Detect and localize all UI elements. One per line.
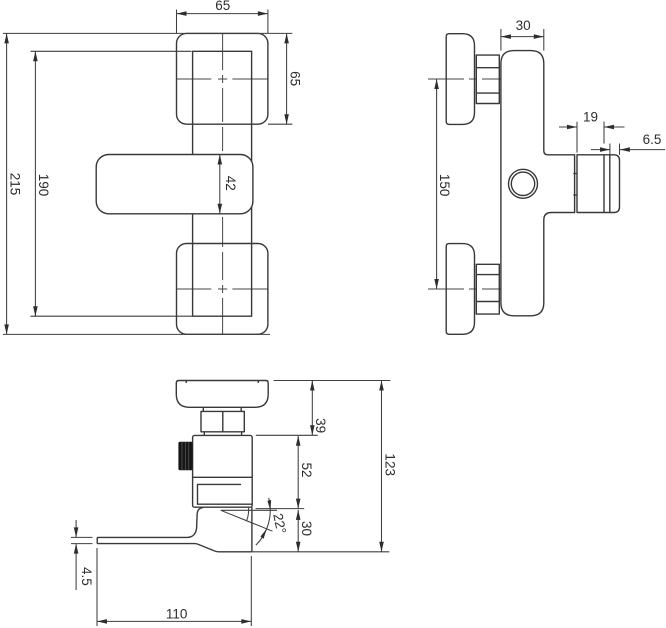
angle wedge horizontal leg [221, 509, 277, 511]
extension line bottom (123/30) [252, 551, 389, 553]
escutcheon ticks [185, 381, 187, 384]
top mounting nut [476, 55, 499, 103]
dimension 30 [501, 36, 544, 38]
escutcheon bottom view [176, 381, 268, 408]
connector ticks [573, 173, 576, 175]
dimension 6.5 [591, 149, 610, 151]
dimension 65 width [177, 13, 268, 15]
dimension 39 [311, 381, 313, 436]
dimension 30 lower [297, 510, 299, 552]
extension line 190 top [31, 50, 192, 52]
svg-text:190: 190 [36, 174, 51, 197]
extension line 190 bottom [31, 315, 193, 317]
extension line top (123/39) [274, 380, 391, 382]
neck upper [202, 407, 204, 411]
svg-text:150: 150 [437, 174, 452, 197]
svg-text:110: 110 [166, 607, 188, 622]
screw hole circle outer [509, 169, 538, 198]
centerline horizontal bottom square [177, 288, 268, 290]
neck lower [203, 432, 205, 436]
dimension 42 handle [219, 155, 221, 214]
centerline bottom escutcheon [428, 288, 508, 290]
angle inner arc [246, 508, 248, 521]
dimension 123 [381, 381, 383, 552]
svg-text:52: 52 [299, 462, 314, 477]
bottom wall bracket square [177, 244, 268, 335]
extension line 65h bottom [268, 123, 292, 125]
svg-text:65: 65 [215, 0, 230, 13]
extension lines 30 [500, 29, 502, 51]
extension lines 65 width [176, 10, 178, 34]
dimension 52 [297, 436, 299, 509]
angle arrowheads [267, 500, 271, 510]
svg-text:4.5: 4.5 [79, 567, 94, 586]
dimension 150 [436, 79, 438, 289]
extension lines 110 [96, 548, 98, 626]
dimension 190 [34, 51, 36, 316]
body side view with outlet boss [501, 51, 575, 316]
connector groove lines [603, 155, 605, 213]
svg-text:42: 42 [223, 176, 238, 191]
svg-text:19: 19 [583, 109, 598, 124]
extension lines 19 [576, 122, 578, 153]
dimension 215 [6, 33, 8, 334]
extension line 39 bottom / 52 top [256, 434, 318, 436]
angle outer arc [256, 498, 270, 545]
svg-text:123: 123 [382, 453, 397, 476]
dimension 110 [97, 620, 251, 622]
centerline top escutcheon [428, 78, 508, 80]
handle front view [96, 155, 253, 214]
bottom mounting nut [476, 264, 499, 314]
svg-text:30: 30 [299, 521, 314, 536]
centerline horizontal top square [177, 78, 268, 80]
svg-text:65: 65 [288, 71, 303, 86]
dimension 4.5 [75, 520, 77, 537]
cartridge recess lines [198, 484, 253, 504]
outlet hose connector [577, 155, 620, 213]
centerline vertical front view [222, 33, 224, 334]
angle wedge 22deg leg [221, 510, 273, 531]
handle lever bottom view [97, 508, 252, 552]
top escutcheon side view [446, 34, 474, 125]
body tube front view [193, 51, 252, 316]
svg-text:39: 39 [313, 418, 328, 433]
extension line top (215/65h) [3, 32, 292, 34]
extension lines 4.5 [71, 536, 93, 538]
svg-text:6.5: 6.5 [643, 132, 662, 147]
top wall bracket square [177, 33, 268, 124]
svg-text:215: 215 [8, 173, 23, 196]
extension line 52 bottom / 30 top [256, 508, 305, 510]
dimension 19 [559, 126, 577, 128]
screw hole circle inner [511, 172, 534, 195]
extension line 215 bottom [3, 333, 270, 335]
valve body bottom view [193, 435, 253, 507]
knurled diverter knob [178, 442, 192, 470]
packing nut bottom view [201, 411, 244, 431]
extension lines 6.5 [609, 144, 611, 155]
svg-text:30: 30 [516, 18, 531, 33]
bottom escutcheon side view [446, 244, 474, 335]
lever right end face [251, 507, 253, 552]
dimension 65 height [286, 33, 288, 124]
